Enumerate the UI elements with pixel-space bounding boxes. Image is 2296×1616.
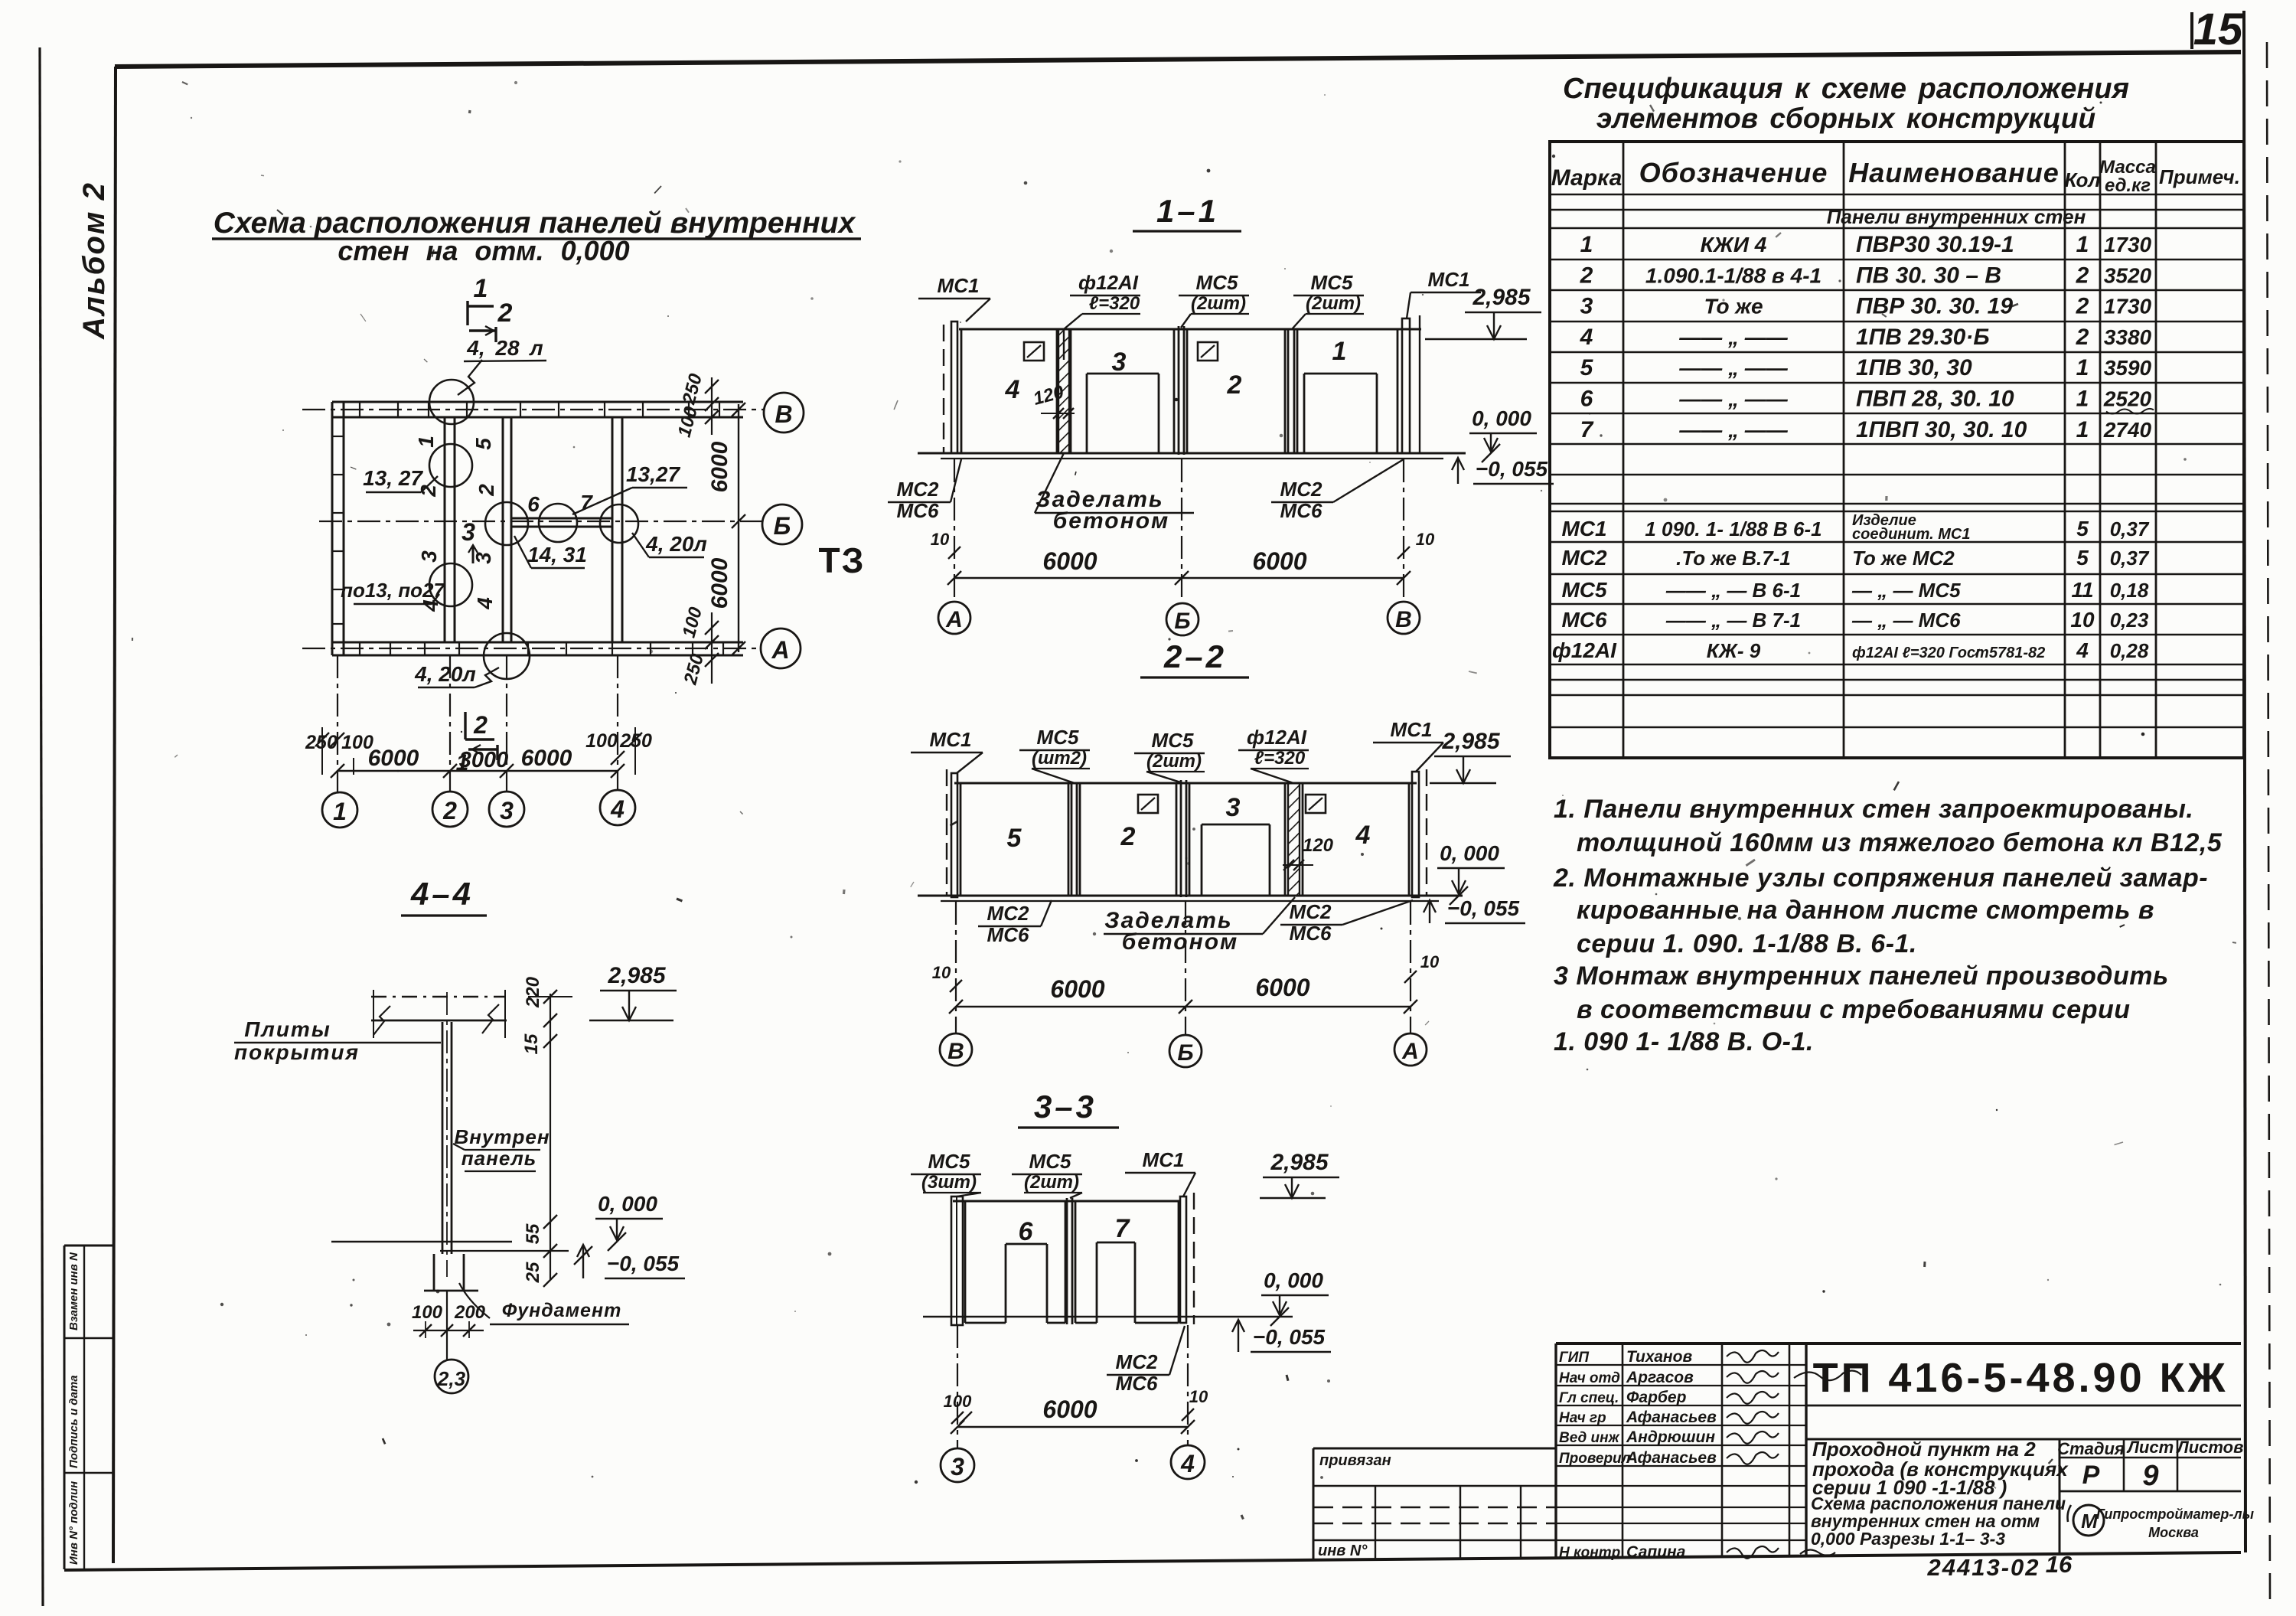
section 1-1 panel 4 bbox=[961, 329, 1057, 453]
svg-text:МС2: МС2 bbox=[1561, 546, 1607, 570]
svg-text:1. Панели внутренних стен: 1. Панели внутренних стен запроектирован… bbox=[1554, 795, 2193, 824]
svg-text:Наименование: Наименование bbox=[1848, 157, 2059, 188]
section 2-2 label 120 bbox=[1283, 835, 1334, 870]
svg-text:Инв N° подлин: Инв N° подлин bbox=[67, 1481, 80, 1565]
section 1-1 embedded plate in panel 4 bbox=[1024, 342, 1044, 361]
svg-text:6: 6 bbox=[527, 492, 540, 516]
svg-text:Б: Б bbox=[1174, 609, 1190, 634]
svg-text:МС1: МС1 bbox=[1143, 1148, 1185, 1171]
svg-text:25: 25 bbox=[523, 1262, 543, 1283]
svg-text:1: 1 bbox=[333, 798, 347, 825]
section 2-2 panel 2 bbox=[1080, 783, 1176, 896]
staff row Нач гр bbox=[1559, 1409, 1717, 1426]
svg-text:3: 3 bbox=[1112, 348, 1127, 377]
section 1-1 panels top line bbox=[959, 328, 1421, 331]
svg-text:3–3: 3–3 bbox=[1034, 1089, 1097, 1125]
plan detail circle top axis 2 bbox=[429, 380, 474, 424]
staff table columns bbox=[1623, 1343, 1789, 1557]
svg-text:4: 4 bbox=[419, 599, 442, 612]
svg-text:2: 2 bbox=[2076, 294, 2089, 319]
section 2-2 right edge column bbox=[1412, 769, 1427, 897]
svg-text:Нач отд: Нач отд bbox=[1559, 1370, 1620, 1386]
svg-text:2: 2 bbox=[475, 484, 498, 497]
svg-text:покрытия: покрытия bbox=[234, 1040, 360, 1064]
svg-text:1. 090 1- 1/88 В. О-1.: 1. 090 1- 1/88 В. О-1. bbox=[1554, 1027, 1814, 1056]
svg-text:КЖИ 4: КЖИ 4 bbox=[1701, 233, 1767, 256]
spec table row panel 2 bbox=[1580, 263, 2152, 288]
spec table row panel 5 bbox=[1580, 355, 2152, 380]
svg-text:10: 10 bbox=[2070, 608, 2095, 632]
staff table rows bbox=[1556, 1365, 1806, 1540]
svg-text:6000: 6000 bbox=[1252, 547, 1306, 575]
section 1-1 embedded plate in panel 2 bbox=[1198, 342, 1218, 361]
plan detail circle axis 2 mid bbox=[429, 444, 472, 487]
svg-text:2,985: 2,985 bbox=[1472, 285, 1531, 310]
svg-text:1: 1 bbox=[1332, 337, 1347, 366]
section 2-2 left edge column bbox=[947, 769, 957, 897]
svg-text:МС2: МС2 bbox=[1290, 900, 1332, 923]
axis circle 4 bbox=[600, 790, 635, 825]
spec table row panel 7 bbox=[1580, 417, 2152, 442]
plan wall on axis 2 bbox=[445, 417, 455, 642]
svg-text:МС5: МС5 bbox=[1561, 578, 1607, 602]
svg-text:3: 3 bbox=[1226, 793, 1241, 822]
note line 7 bbox=[1577, 995, 2131, 1024]
title block description box bbox=[2060, 1439, 2241, 1554]
svg-text:2,985: 2,985 bbox=[1441, 729, 1500, 754]
section 2-2 panel 5 bbox=[960, 783, 1068, 896]
svg-text:2: 2 bbox=[1580, 263, 1593, 288]
svg-text:Масса: Масса bbox=[2099, 157, 2156, 178]
svg-text:1–1: 1–1 bbox=[1156, 193, 1219, 229]
svg-text:Плиты: Плиты bbox=[244, 1017, 331, 1041]
svg-text:МС2: МС2 bbox=[987, 902, 1029, 925]
svg-text:6000: 6000 bbox=[707, 441, 732, 492]
section 2-2 panel 4 bbox=[1303, 783, 1409, 896]
axis line 1 vertical bbox=[337, 655, 338, 792]
note line 1 bbox=[1554, 795, 2193, 824]
spec table heading line 1 bbox=[1563, 73, 2129, 105]
section 3-3 ground line bbox=[923, 1316, 1293, 1318]
svg-text:Андрюшин: Андрюшин bbox=[1626, 1428, 1715, 1446]
page outer right dashed border bbox=[2267, 42, 2270, 1608]
svg-text:МС2: МС2 bbox=[1280, 478, 1322, 501]
plan label 14,31 bbox=[514, 536, 587, 568]
svg-text:6: 6 bbox=[1019, 1217, 1034, 1246]
title block middle line bbox=[1806, 1438, 2241, 1441]
svg-text:9: 9 bbox=[2142, 1460, 2158, 1492]
svg-text:Б: Б bbox=[1177, 1040, 1193, 1066]
section 3-3 panel 7 with notch bbox=[1075, 1201, 1179, 1323]
plan label 4,20л bottom bbox=[414, 662, 499, 687]
section 2-2 label МС2/МС6 right bbox=[1280, 900, 1413, 945]
svg-text:6000: 6000 bbox=[1050, 975, 1104, 1003]
section 2-2 axis circle В bbox=[940, 1033, 972, 1066]
section 2-2 wall axis Б bbox=[1181, 780, 1186, 897]
section 3-3 title bbox=[1018, 1089, 1119, 1128]
section 1-1 floor line bbox=[918, 453, 1466, 459]
svg-text:Гл спец.: Гл спец. bbox=[1559, 1390, 1619, 1406]
svg-text:Кол: Кол bbox=[2064, 168, 2100, 191]
svg-text:То же МС2: То же МС2 bbox=[1852, 547, 1955, 570]
spec table row МС2 bbox=[1561, 546, 2149, 570]
svg-text:— „ — МС6: — „ — МС6 bbox=[1851, 609, 1961, 632]
attachment label привязан bbox=[1319, 1452, 1391, 1469]
svg-text:1: 1 bbox=[414, 436, 438, 448]
svg-text:2: 2 bbox=[2076, 325, 2089, 350]
staff signatures bbox=[1727, 1350, 1779, 1559]
svg-text:3: 3 bbox=[417, 550, 441, 563]
spec table row МС6 bbox=[1561, 608, 2148, 632]
section 2-2 level 2.985 bbox=[1430, 729, 1511, 783]
stage header Лист bbox=[2126, 1438, 2174, 1457]
svg-text:Внутрен: Внутрен bbox=[454, 1125, 550, 1148]
section 1-1 left edge column bbox=[944, 322, 957, 453]
svg-text:КЖ- 9: КЖ- 9 bbox=[1707, 639, 1761, 662]
svg-text:220: 220 bbox=[523, 976, 543, 1008]
section 1-1 title bbox=[1133, 193, 1241, 231]
section 1-1 dim 10 left bbox=[931, 530, 960, 559]
spec table row panel 1 bbox=[1580, 232, 2152, 257]
plan detail circle Б axis 3 bbox=[485, 502, 528, 545]
svg-text:ПВ 30. 30 – В: ПВ 30. 30 – В bbox=[1856, 263, 2001, 288]
svg-text:А: А bbox=[945, 607, 963, 632]
svg-text:МС1: МС1 bbox=[1561, 517, 1606, 540]
svg-text:Афанасьев: Афанасьев bbox=[1626, 1409, 1717, 1426]
section 4-4 slab break mark right bbox=[482, 990, 505, 1038]
svg-text:3: 3 bbox=[951, 1453, 964, 1481]
svg-text:МС5: МС5 bbox=[1037, 726, 1079, 749]
plan panel label 4 bbox=[473, 597, 497, 610]
svg-text:МС2: МС2 bbox=[1116, 1350, 1158, 1373]
document number 24413-02 16 bbox=[1926, 1551, 2073, 1581]
svg-text:Альбом 2: Альбом 2 bbox=[77, 181, 111, 340]
section 3-3 dimension line bbox=[951, 1396, 1195, 1434]
section 3-3 axis circle 4 bbox=[1171, 1445, 1205, 1479]
svg-text:МС6: МС6 bbox=[1561, 608, 1607, 632]
side stamp label 1 bbox=[67, 1252, 80, 1330]
svg-text:Проверил: Проверил bbox=[1559, 1451, 1631, 1467]
note line 3 bbox=[1553, 863, 2208, 893]
svg-text:1730: 1730 bbox=[2104, 233, 2152, 256]
spec table row ф12АI bbox=[1552, 638, 2149, 662]
section 2-2 leader МС1 left bbox=[911, 728, 983, 773]
section 1-1 axis line Б down bbox=[1181, 459, 1182, 603]
svg-text:4: 4 bbox=[1005, 375, 1020, 404]
section 2-2 label Заделать бетоном bbox=[1104, 897, 1295, 955]
section 1-1 leader МС1 right bbox=[1407, 268, 1481, 318]
section 2-2 leader ф12АТ bbox=[1238, 726, 1309, 783]
plan label 4,20л right bbox=[632, 532, 707, 557]
svg-text:ф12АI: ф12АI bbox=[1078, 271, 1139, 294]
section 3-3 level 0.000 bbox=[1261, 1268, 1329, 1326]
svg-text:11: 11 bbox=[2071, 578, 2093, 602]
svg-text:120: 120 bbox=[1303, 835, 1334, 856]
section 3-3 leader МС1 bbox=[1125, 1148, 1195, 1196]
svg-text:4: 4 bbox=[473, 597, 497, 610]
staff row Вед инж bbox=[1559, 1428, 1715, 1446]
svg-text:в соответствии с требованиям: в соответствии с требованиями серии bbox=[1577, 995, 2131, 1024]
svg-text:7: 7 bbox=[1115, 1214, 1131, 1243]
svg-text:ПВП 28, 30. 10: ПВП 28, 30. 10 bbox=[1856, 387, 2014, 412]
section 3-3 axis circle 3 bbox=[941, 1448, 974, 1482]
title block outline bbox=[1556, 1343, 2241, 1558]
section 2-2 leader МС1 right bbox=[1373, 718, 1443, 772]
plan label по13,по27 bbox=[341, 579, 445, 604]
plan detail circle Б axis 4 bbox=[600, 504, 638, 543]
svg-text:МС1: МС1 bbox=[938, 274, 980, 297]
svg-text:0, 000: 0, 000 bbox=[598, 1192, 657, 1216]
svg-text:1ПВ 30, 30: 1ПВ 30, 30 bbox=[1856, 355, 1972, 380]
section 3-3 wall between bbox=[1067, 1198, 1072, 1324]
plan panel label 3 bbox=[417, 550, 441, 563]
svg-text:−0, 055: −0, 055 bbox=[1447, 896, 1520, 920]
svg-text:Фарбер: Фарбер bbox=[1626, 1389, 1687, 1406]
svg-text:3520: 3520 bbox=[2104, 263, 2152, 287]
section 2-2 level -0.055 bbox=[1424, 896, 1525, 923]
svg-text:100: 100 bbox=[412, 1302, 443, 1323]
section 1-1 panel 3 with door bbox=[1071, 329, 1174, 453]
svg-text:В: В bbox=[1395, 607, 1412, 632]
svg-text:0,37: 0,37 bbox=[2110, 517, 2150, 540]
section 2-2 embedded plate in panel 4 bbox=[1306, 795, 1326, 813]
svg-text:2: 2 bbox=[1227, 371, 1242, 400]
svg-text:−0, 055: −0, 055 bbox=[607, 1252, 680, 1275]
spec table row panel 3 bbox=[1580, 294, 2152, 319]
svg-text:100: 100 bbox=[944, 1392, 972, 1411]
svg-text:2. Монтажные узлы сопряжени: 2. Монтажные узлы сопряжения панелей зам… bbox=[1553, 863, 2208, 893]
svg-text:МС1: МС1 bbox=[1391, 718, 1433, 741]
section 2-2 panel label 5 bbox=[1007, 824, 1022, 853]
section 1-1 level -0.055 bbox=[1452, 457, 1554, 484]
svg-text:6000: 6000 bbox=[368, 746, 419, 771]
section 3-3 panel label 7 bbox=[1115, 1214, 1131, 1243]
section 2-2 title bbox=[1140, 638, 1249, 677]
svg-text:3380: 3380 bbox=[2104, 325, 2152, 349]
axis circle 3 bbox=[489, 792, 524, 827]
spec table row panel 4 bbox=[1580, 325, 2152, 350]
staff row Гл спец. bbox=[1559, 1389, 1687, 1406]
section 2-2 axis circle А bbox=[1394, 1033, 1427, 1066]
svg-text:МС2: МС2 bbox=[897, 478, 939, 501]
section 1-1 panel 1 with door bbox=[1297, 329, 1397, 453]
signature extra strokes bbox=[1794, 1370, 1861, 1556]
section 1-1 right edge column bbox=[1402, 315, 1420, 453]
axis line 2 vertical bbox=[449, 655, 451, 792]
svg-text:1: 1 bbox=[2076, 417, 2089, 442]
svg-text:Стадия: Стадия bbox=[2057, 1439, 2125, 1458]
svg-text:А: А bbox=[771, 636, 789, 664]
section 1-1 leader ф12АТ bbox=[1064, 271, 1140, 360]
svg-text:16: 16 bbox=[2046, 1551, 2073, 1578]
note line 2 bbox=[1577, 828, 2223, 857]
axis circle 1 bbox=[322, 792, 357, 828]
svg-text:1ПВ 29.30·Б: 1ПВ 29.30·Б bbox=[1856, 325, 1990, 350]
section 1-1 level 0.000 bbox=[1469, 406, 1537, 462]
section 2-2 embedded plate in panel 2 bbox=[1138, 795, 1158, 813]
plan dimension 100/250 bottom right bbox=[679, 605, 719, 687]
svg-text:4: 4 bbox=[610, 795, 625, 823]
section 3-3 leader МС5 b bbox=[1012, 1150, 1082, 1198]
plan label 4,28л bbox=[458, 336, 546, 395]
section 1-1 dimension line bbox=[947, 547, 1411, 585]
plan detail circle bottom axis 3 bbox=[484, 633, 530, 679]
svg-text:ф12АI: ф12АI bbox=[1552, 638, 1617, 662]
drawing frame top border bbox=[115, 52, 2241, 67]
section 4-4 level 2.985 bbox=[589, 963, 677, 1020]
plan label 13,27 right bbox=[572, 462, 687, 514]
section 1-1 label 120 bbox=[1031, 381, 1075, 419]
svg-text:6000: 6000 bbox=[707, 557, 732, 609]
section 4-4 foundation bbox=[424, 1254, 478, 1291]
svg-text:1 090. 1- 1/88 В 6-1: 1 090. 1- 1/88 В 6-1 bbox=[1645, 517, 1821, 540]
section 3-3 right edge column bbox=[1180, 1193, 1194, 1324]
svg-text:4: 4 bbox=[2076, 638, 2089, 662]
axis circle 2 bbox=[432, 792, 468, 827]
section 2-2 panel label 2 bbox=[1120, 822, 1136, 851]
svg-text:−0, 055: −0, 055 bbox=[1253, 1325, 1326, 1349]
stage value Р bbox=[2082, 1461, 2100, 1490]
plan wall on axis 4 bbox=[612, 417, 622, 642]
svg-text:Марка: Марка bbox=[1551, 165, 1623, 191]
section 2-2 axis circle Б bbox=[1169, 1035, 1202, 1067]
svg-text:15: 15 bbox=[521, 1033, 542, 1054]
spec table grid bbox=[1550, 142, 2244, 758]
section 2-2 label МС2/МС6 left bbox=[978, 900, 1052, 946]
svg-text:Москва: Москва bbox=[2148, 1525, 2199, 1540]
svg-text:−0, 055: −0, 055 bbox=[1476, 457, 1548, 481]
svg-text:4: 4 bbox=[1580, 325, 1593, 350]
svg-text:250: 250 bbox=[305, 732, 338, 753]
svg-text:1.090.1-1/88 в 4-1: 1.090.1-1/88 в 4-1 bbox=[1645, 263, 1821, 287]
section 1-1 label Заделать бетоном bbox=[1035, 453, 1194, 534]
section 4-4 dim 100 200 bbox=[412, 1302, 486, 1338]
svg-text:—— „ ——: —— „ —— bbox=[1678, 325, 1789, 349]
svg-text:Сапина: Сапина bbox=[1626, 1543, 1686, 1561]
section 1-1 panel 2 bbox=[1187, 329, 1285, 453]
svg-text:1: 1 bbox=[456, 750, 469, 775]
axis line 3 vertical bbox=[506, 655, 507, 792]
svg-text:1: 1 bbox=[2076, 355, 2089, 380]
section 1-1 panel label 1 bbox=[1332, 337, 1347, 366]
project code ТП 416-5-48.90 КЖ bbox=[1806, 1355, 2241, 1405]
svg-text:МС5: МС5 bbox=[928, 1150, 970, 1173]
plan wall on axis A (bottom wall) bbox=[332, 642, 743, 655]
section 1-1 joint strip 2 bbox=[1288, 329, 1294, 453]
note line 5 bbox=[1577, 929, 1917, 958]
section 3-3 left edge column bbox=[951, 1196, 963, 1325]
section 3-3 level -0.055 bbox=[1232, 1320, 1331, 1352]
section 2-2 panels top line bbox=[954, 782, 1417, 785]
svg-text:МС1: МС1 bbox=[1428, 268, 1470, 291]
attachment label инв № bbox=[1318, 1543, 1368, 1559]
note line 8 bbox=[1554, 1027, 1814, 1056]
svg-text:250: 250 bbox=[680, 651, 708, 687]
svg-text:1: 1 bbox=[2076, 232, 2089, 257]
svg-text:6: 6 bbox=[1580, 387, 1593, 412]
section 1-1 leader МС5 b bbox=[1292, 271, 1364, 329]
svg-text:0,28: 0,28 bbox=[2110, 639, 2149, 662]
svg-text:Б: Б bbox=[774, 512, 791, 540]
section 2-2 leader МС5 a bbox=[1019, 726, 1090, 783]
section 3-3 level 2.985 bbox=[1260, 1150, 1339, 1198]
svg-text:2740: 2740 bbox=[2103, 418, 2152, 442]
svg-text:6000: 6000 bbox=[1042, 1396, 1097, 1423]
section 3-3 dim 10 bbox=[1182, 1387, 1208, 1421]
svg-text:2: 2 bbox=[473, 711, 488, 739]
svg-text:—— „ — В 6-1: —— „ — В 6-1 bbox=[1665, 579, 1801, 602]
section 4-4 roof slab dashed line bbox=[371, 996, 505, 997]
svg-text:2,985: 2,985 bbox=[607, 963, 666, 988]
svg-text:0, 000: 0, 000 bbox=[1440, 841, 1499, 865]
section 1-1 axis line В down bbox=[1403, 459, 1404, 602]
svg-text:10: 10 bbox=[1189, 1387, 1208, 1406]
svg-text:24413-02: 24413-02 bbox=[1926, 1554, 2040, 1581]
svg-text:1: 1 bbox=[1580, 232, 1593, 257]
drawing frame bottom border bbox=[64, 1552, 2241, 1570]
section 1-1 leader МС1 left bbox=[918, 274, 990, 322]
svg-text:10: 10 bbox=[1416, 530, 1435, 549]
plan dimension 250/100 top right bbox=[674, 371, 719, 439]
plan panel label 2 bbox=[416, 485, 440, 498]
drawing frame right border bbox=[2244, 11, 2245, 1552]
drawing frame left border bbox=[113, 67, 116, 1563]
svg-text:ТЗ: ТЗ bbox=[819, 540, 866, 580]
svg-text:3: 3 bbox=[500, 797, 514, 824]
plan panel label 4 bbox=[419, 599, 442, 612]
svg-text:ТП 416-5-48.90 КЖ: ТП 416-5-48.90 КЖ bbox=[1813, 1355, 2229, 1401]
section 4-4 title bbox=[401, 876, 487, 916]
main title line 2 bbox=[338, 235, 629, 266]
stage header Стадия bbox=[2057, 1439, 2125, 1458]
section 1-1 axis circle Б bbox=[1166, 603, 1199, 635]
svg-text:МС5: МС5 bbox=[1196, 271, 1238, 294]
svg-text:55: 55 bbox=[523, 1223, 543, 1244]
staff row Н контр bbox=[1559, 1543, 1686, 1561]
svg-text:6000: 6000 bbox=[1255, 974, 1309, 1001]
svg-text:0, 000: 0, 000 bbox=[1264, 1268, 1323, 1292]
section 1-1 axis circle A bbox=[938, 602, 970, 634]
section 4-4 label Внутрен панель bbox=[453, 1125, 550, 1171]
organization logo bbox=[2068, 1505, 2105, 1536]
axis line Б bbox=[319, 521, 762, 522]
axis circle Б bbox=[762, 504, 802, 544]
section 1-1 axis circle В bbox=[1388, 602, 1420, 634]
svg-text:6000: 6000 bbox=[1042, 547, 1097, 575]
svg-text:10: 10 bbox=[1420, 952, 1440, 971]
section 4-4 axis circle 2,3 bbox=[435, 1291, 468, 1393]
sheet number 9 bbox=[2142, 1460, 2158, 1492]
plan label 13,27 left bbox=[363, 466, 438, 492]
svg-text:2: 2 bbox=[442, 797, 457, 824]
section 1-1 panel label 4 bbox=[1005, 375, 1020, 404]
svg-text:Обозначение: Обозначение bbox=[1639, 157, 1828, 188]
section 2-2 dim 10 left bbox=[932, 963, 962, 992]
section 2-2 joint strip a bbox=[1071, 783, 1077, 896]
svg-text:2: 2 bbox=[497, 299, 513, 328]
svg-text:2,985: 2,985 bbox=[1270, 1150, 1329, 1175]
svg-text:Вед инж: Вед инж bbox=[1559, 1430, 1620, 1446]
staff row Проверил bbox=[1559, 1449, 1717, 1467]
svg-text:1: 1 bbox=[2076, 387, 2089, 412]
plan panel label 3 bbox=[471, 552, 495, 564]
spec table row panel 6 bbox=[1580, 387, 2154, 414]
svg-text:соединит. МС1: соединит. МС1 bbox=[1852, 526, 1970, 543]
svg-text:Подпись и дата: Подпись и дата bbox=[67, 1375, 80, 1468]
section 1-1 dim 10 right bbox=[1397, 530, 1435, 559]
svg-text:2: 2 bbox=[416, 485, 440, 498]
plan panel label 6 bbox=[527, 492, 540, 516]
